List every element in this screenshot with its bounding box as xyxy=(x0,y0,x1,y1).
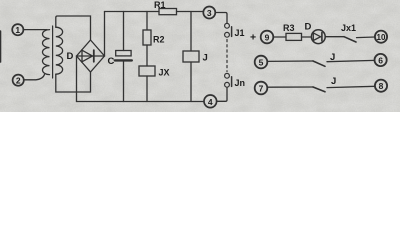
resistor R1 xyxy=(159,9,177,15)
wire contact J to terminal 8 xyxy=(327,86,375,87)
wire terminal 7 to contact J xyxy=(267,86,313,88)
contact J blade (row 5-6) xyxy=(313,61,325,66)
svg-text:J: J xyxy=(331,76,336,87)
svg-text:6: 6 xyxy=(378,56,383,66)
wire terminal1 to primary xyxy=(23,29,47,31)
paper background xyxy=(0,0,400,112)
wire R3 to diode D xyxy=(302,36,312,38)
transformer core xyxy=(52,26,54,78)
capacitor C lead top xyxy=(123,12,125,51)
wire coil J to bottom bus xyxy=(190,62,192,102)
svg-text:J1: J1 xyxy=(235,28,245,38)
indicator diode D xyxy=(311,30,325,44)
wire bridge right corner to top bus xyxy=(104,12,106,57)
svg-text:JX: JX xyxy=(159,68,170,78)
svg-text:8: 8 xyxy=(379,81,384,91)
wire terminal2 to primary xyxy=(24,75,45,80)
wire JX to bottom bus xyxy=(146,76,148,102)
svg-text:2: 2 xyxy=(16,76,21,86)
terminal 1 xyxy=(12,24,23,35)
capacitor C lead bottom xyxy=(123,62,125,102)
wire diode D to switch Jx1 xyxy=(325,36,344,38)
svg-text:D: D xyxy=(305,22,312,33)
wire contact J to terminal 6 xyxy=(327,60,375,61)
bottom bus wire xyxy=(77,101,204,103)
terminal 5 xyxy=(255,56,268,69)
terminal 3 xyxy=(203,7,215,19)
wire contact Jn to terminal 4 xyxy=(217,87,227,101)
capacitor C top plate xyxy=(116,51,131,56)
terminal 2 xyxy=(13,75,24,86)
svg-text:R3: R3 xyxy=(283,23,295,33)
switch Jx1 blade xyxy=(344,37,356,42)
wire bridge left corner to bottom bus xyxy=(76,56,78,102)
svg-text:C: C xyxy=(108,56,115,67)
resistor R3 xyxy=(286,33,302,40)
wire terminal 3 to contact J1 xyxy=(215,13,227,24)
svg-text:J: J xyxy=(203,53,208,64)
transformer T secondary winding xyxy=(56,27,63,74)
svg-text:7: 7 xyxy=(259,84,264,94)
wire secondary bottom to bridge bottom xyxy=(56,72,91,92)
svg-text:5: 5 xyxy=(259,58,264,68)
relay coil J lead top xyxy=(190,12,192,52)
transformer T primary winding xyxy=(43,30,50,75)
wire switch Jx1 to terminal 10 xyxy=(357,36,375,39)
wire terminal 9 to R3 xyxy=(273,36,286,38)
terminal 6 xyxy=(375,54,387,66)
svg-text:Jn: Jn xyxy=(235,78,246,88)
terminal 8 xyxy=(375,80,387,92)
thermal element JX xyxy=(139,66,155,76)
top bus wire xyxy=(105,11,204,13)
svg-text:R2: R2 xyxy=(153,35,165,45)
terminal 4 xyxy=(204,95,217,108)
svg-text:Jx1: Jx1 xyxy=(341,23,356,33)
contact J blade (row 7-8) xyxy=(313,87,325,92)
resistor R2 lead top xyxy=(146,12,148,31)
wire secondary top to bridge top xyxy=(56,16,91,40)
svg-text:9: 9 xyxy=(265,33,270,43)
terminal 10 xyxy=(375,31,387,43)
bridge rectifier D diamond xyxy=(77,40,105,72)
bridge inner diode xyxy=(77,50,105,62)
svg-text:R1: R1 xyxy=(154,0,166,10)
relay coil J xyxy=(183,51,199,62)
resistor R2 xyxy=(143,30,151,45)
scan edge artifact xyxy=(0,31,2,62)
contact Jn xyxy=(225,73,232,87)
wire R2 to JX xyxy=(146,45,148,66)
svg-text:4: 4 xyxy=(208,97,213,107)
svg-text:+: + xyxy=(250,32,256,44)
terminal 7 xyxy=(255,82,268,95)
dashed wire J1 to Jn xyxy=(226,40,228,72)
svg-text:3: 3 xyxy=(207,8,212,18)
svg-text:D: D xyxy=(67,51,74,62)
terminal 9 xyxy=(261,31,274,44)
wire terminal 5 to contact J xyxy=(267,60,313,62)
capacitor C bottom plate xyxy=(115,59,132,61)
contact J1 xyxy=(225,23,232,37)
svg-text:10: 10 xyxy=(377,33,386,42)
svg-text:1: 1 xyxy=(15,25,20,35)
